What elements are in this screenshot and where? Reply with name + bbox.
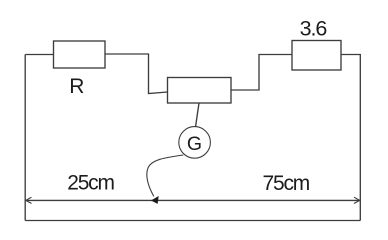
galvanometer G circle: [179, 127, 211, 159]
wire R to node: [105, 54, 168, 94]
jockey lead curve: [147, 155, 184, 196]
jockey arrowhead: [152, 197, 158, 204]
resistance box (bridge tap block): [168, 78, 232, 104]
wire left vertical: [24, 55, 26, 221]
wire box to galvanometer: [196, 103, 200, 127]
resistor 3.6: [292, 41, 341, 71]
svg-text:3.6: 3.6: [300, 16, 328, 40]
wire top-left to R: [25, 54, 53, 56]
wire slide-wire dimension line: [25, 199, 360, 201]
wire 3.6 to right vertical: [341, 55, 360, 221]
svg-text:75cm: 75cm: [263, 172, 310, 195]
wire bottom: [25, 220, 360, 222]
svg-text:25cm: 25cm: [67, 172, 114, 195]
wire box to 3.6: [231, 55, 292, 91]
dimension arrowhead right: [354, 197, 360, 203]
dimension arrowhead left: [26, 197, 32, 203]
svg-text:G: G: [187, 133, 202, 155]
svg-text:R: R: [69, 75, 84, 98]
resistor R: [54, 41, 106, 68]
